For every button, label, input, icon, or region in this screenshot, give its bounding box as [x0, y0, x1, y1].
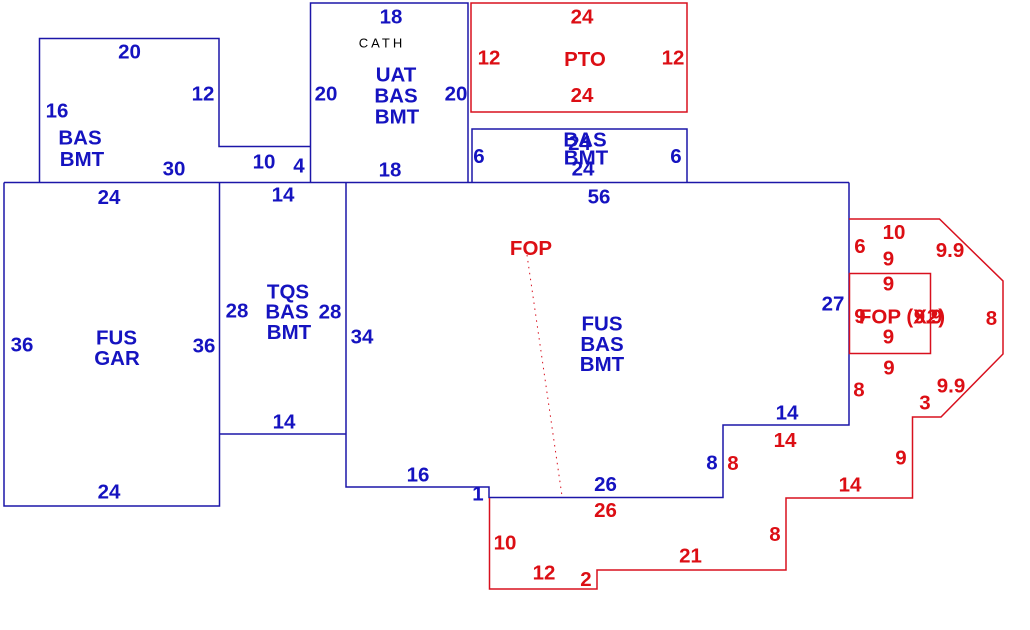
svg-text:14: 14 — [839, 473, 862, 496]
svg-text:14: 14 — [273, 410, 296, 433]
svg-text:18: 18 — [379, 158, 402, 181]
svg-text:4: 4 — [293, 154, 305, 177]
svg-text:9.9: 9.9 — [936, 239, 965, 262]
svg-text:8: 8 — [727, 452, 738, 475]
svg-text:9: 9 — [883, 247, 894, 270]
svg-text:28: 28 — [319, 300, 342, 323]
svg-text:14: 14 — [776, 401, 799, 424]
svg-text:30: 30 — [163, 157, 186, 180]
svg-text:9: 9 — [883, 272, 894, 295]
svg-text:34: 34 — [351, 325, 374, 348]
svg-text:12: 12 — [662, 46, 685, 69]
svg-text:FOP: FOP — [510, 237, 552, 260]
svg-text:BMT: BMT — [375, 105, 420, 128]
svg-text:24: 24 — [572, 157, 595, 180]
svg-text:12: 12 — [478, 46, 501, 69]
svg-text:36: 36 — [11, 333, 34, 356]
wall FUS GAR room — [4, 183, 220, 507]
wall red bottom extension — [490, 219, 1004, 589]
svg-text:8: 8 — [706, 451, 717, 474]
svg-text:9: 9 — [883, 325, 894, 348]
svg-text:26: 26 — [594, 473, 617, 496]
svg-text:24: 24 — [98, 186, 121, 209]
svg-text:21: 21 — [679, 544, 702, 567]
wall UAT building — [311, 3, 469, 183]
svg-text:9.9: 9.9 — [937, 374, 966, 397]
wall TQS bottom — [220, 433, 347, 435]
svg-text:24: 24 — [571, 5, 594, 28]
svg-text:BMT: BMT — [580, 353, 625, 376]
svg-text:6: 6 — [854, 235, 865, 258]
svg-text:8: 8 — [986, 307, 997, 330]
svg-text:14: 14 — [272, 183, 295, 206]
svg-text:9: 9 — [895, 446, 906, 469]
svg-text:BMT: BMT — [267, 321, 312, 344]
svg-text:6: 6 — [473, 145, 484, 168]
svg-text:27: 27 — [822, 292, 845, 315]
svg-text:36: 36 — [193, 334, 216, 357]
svg-text:PTO: PTO — [564, 48, 606, 71]
svg-text:20: 20 — [445, 82, 468, 105]
svg-text:3: 3 — [919, 391, 930, 414]
wall top-left building — [40, 39, 311, 183]
svg-text:10: 10 — [883, 221, 906, 244]
svg-text:UAT: UAT — [376, 63, 417, 86]
wall small BAS BMT rect — [472, 129, 687, 183]
wall PTO rect — [471, 3, 687, 112]
svg-text:8: 8 — [853, 378, 864, 401]
svg-text:16: 16 — [407, 463, 430, 486]
svg-text:14: 14 — [774, 429, 797, 452]
svg-text:16: 16 — [46, 99, 69, 122]
svg-text:28: 28 — [226, 299, 249, 322]
svg-text:56: 56 — [588, 185, 611, 208]
svg-text:18: 18 — [380, 5, 403, 28]
svg-text:24: 24 — [98, 480, 121, 503]
svg-text:26: 26 — [594, 499, 617, 522]
svg-text:12: 12 — [192, 82, 215, 105]
svg-text:10: 10 — [253, 150, 276, 173]
svg-text:9: 9 — [883, 356, 894, 379]
svg-text:12: 12 — [533, 561, 556, 584]
svg-text:6: 6 — [670, 145, 681, 168]
svg-text:1: 1 — [472, 482, 483, 505]
svg-text:CATH: CATH — [359, 36, 405, 51]
leader dotted FOP — [527, 255, 562, 496]
svg-text:20: 20 — [118, 40, 141, 63]
svg-text:9.9: 9.9 — [914, 305, 943, 328]
svg-text:20: 20 — [315, 82, 338, 105]
svg-text:BAS: BAS — [374, 84, 417, 107]
wall FUS BAS BMT big room — [346, 183, 849, 498]
svg-text:GAR: GAR — [94, 347, 140, 370]
svg-text:BMT: BMT — [60, 148, 105, 171]
svg-text:8: 8 — [769, 523, 780, 546]
wall main baseline — [4, 182, 849, 184]
svg-text:10: 10 — [494, 531, 517, 554]
svg-text:BAS: BAS — [58, 126, 101, 149]
svg-text:2: 2 — [580, 568, 591, 591]
svg-text:24: 24 — [571, 84, 594, 107]
wall FOP X2 rect — [850, 274, 931, 354]
